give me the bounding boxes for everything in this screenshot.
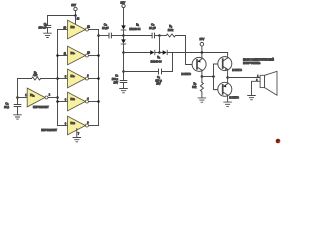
ground [224,102,232,106]
transistor T2 BC547C [218,53,242,78]
svg-text:IC1d: IC1d [71,122,75,125]
inverter IC1E [64,46,91,65]
svg-text:12: 12 [87,26,90,28]
resistor R3 [192,77,203,98]
node supply junction [74,14,77,17]
ground [198,98,206,102]
resistor R2 [166,25,175,37]
svg-text:6: 6 [87,75,89,77]
ground [248,96,256,100]
svg-text:7: 7 [78,133,80,135]
wire gate b output [89,100,100,103]
svg-text:ПЬЕЗОЭЛЕКТРИЧЕСКИЙ: ПЬЕЗОЭЛЕКТРИЧЕСКИЙ [243,58,274,61]
diode D2a [150,50,159,54]
svg-text:14: 14 [77,19,80,21]
svg-text:HEF40106BT: HEF40106BT [41,128,57,132]
svg-text:D2: D2 [157,56,160,59]
diode D1b [121,36,126,53]
svg-text:IC1e: IC1e [71,52,75,55]
logo red dot [276,139,281,144]
wire driver node [202,75,215,78]
wire to C3 [99,35,110,37]
node rail2 mid [158,51,161,54]
svg-text:8: 8 [87,122,89,124]
wire rail2 left [124,52,151,54]
transistor T1 BC557C [181,53,206,77]
diode D1a [121,24,141,36]
wire link W-Z [159,36,161,53]
node oscillator input [16,96,19,99]
wire pump down [122,53,125,73]
supply 12V pump [120,0,125,25]
ground [14,115,22,119]
svg-text:BAS40-04: BAS40-04 [129,28,141,31]
node rail2 pump [122,51,125,54]
transistor T3 BC557C [218,78,239,102]
supply 12V left [71,3,77,16]
wire branch to C6 [162,53,173,72]
wire C2 to supply node [48,16,76,26]
svg-text:25V: 25V [200,37,205,41]
wire gate e input [56,54,67,57]
wire gate f input [58,29,68,31]
wire gate c input [56,77,67,80]
svg-text:100 nF: 100 nF [39,27,47,30]
svg-text:12V: 12V [71,3,76,7]
wire output bus [98,30,100,126]
ground [120,89,128,93]
svg-text:ИЗЛУЧАТЕЛЬ: ИЗЛУЧАТЕЛЬ [243,62,261,65]
wire gate e output [89,54,100,57]
inverter IC1A [25,88,51,109]
capacitor C5 [149,23,156,38]
wire rail1 a [111,35,123,37]
svg-text:25V: 25V [114,82,119,85]
loudspeaker piezo [243,58,277,95]
svg-text:2: 2 [49,94,51,96]
node IC1A output on bus [56,96,59,99]
svg-text:BAS40-04: BAS40-04 [151,60,163,63]
resistor R1 [32,71,41,80]
wire output to speaker [228,77,261,79]
svg-text:IC1c: IC1c [71,75,75,78]
node output [226,76,229,79]
label speaker terminal marks [256,76,259,82]
capacitor C3 [102,23,111,38]
wire rail1 to node W [155,34,161,37]
svg-text:IC1b: IC1b [71,98,75,101]
wire gate d output [89,125,99,127]
wire pin 7 [77,129,80,138]
svg-text:100 µ: 100 µ [112,78,119,81]
inverter IC1F [64,20,91,39]
wire C6 to node P [124,71,159,73]
wire pin 14 [76,16,80,25]
wire R1 feedback [18,79,58,98]
annotation 25V [200,37,205,54]
capacitor C2 [39,22,51,33]
svg-text:10 µF: 10 µF [149,27,156,30]
inverter IC1C [65,69,89,88]
wire to T3 base [214,77,223,90]
wire IC1A input [18,97,28,99]
capacitor C6 [155,69,162,86]
svg-text:56k: 56k [192,86,197,89]
node C3 branch [97,34,100,37]
svg-text:IC1f: IC1f [71,26,75,29]
wire 25V rail [168,52,228,54]
wire speaker to ground [252,81,261,95]
svg-text:12V: 12V [120,0,125,4]
capacitor C4 [112,72,127,89]
svg-text:BC557C: BC557C [181,73,191,76]
wire gate f output [89,29,99,31]
svg-text:10 µ: 10 µ [4,106,9,109]
node T1 collector [201,75,204,78]
capacitor C1 [4,98,21,115]
wire IC1A output [48,97,58,99]
wire W to R2 [160,35,167,37]
svg-text:10: 10 [87,52,90,54]
wire to T2 base [214,64,223,77]
svg-text:HEF40106BT: HEF40106BT [33,105,49,109]
wire gate d input [58,125,68,127]
ground [44,33,52,37]
inverter IC1B [65,92,89,111]
wire gate b input [56,100,67,103]
svg-text:IC1a: IC1a [30,94,34,97]
svg-text:D1: D1 [136,24,139,27]
inverter IC1D [65,116,89,135]
svg-text:10 µF: 10 µF [102,27,109,30]
svg-text:25V: 25V [156,83,161,86]
node rail1 pump [122,34,125,37]
svg-text:BC557C: BC557C [229,96,239,99]
svg-text:100k: 100k [168,29,174,32]
diode D2b [151,50,168,63]
wire rail1 b [124,35,153,37]
svg-text:BC547C: BC547C [232,69,242,72]
wire input bus [57,30,59,126]
wire R2 to T1 base [175,36,196,65]
label HEF40106BT second [41,128,57,132]
ground [73,138,81,142]
svg-text:4: 4 [87,98,89,100]
wire gate c output [89,77,100,80]
